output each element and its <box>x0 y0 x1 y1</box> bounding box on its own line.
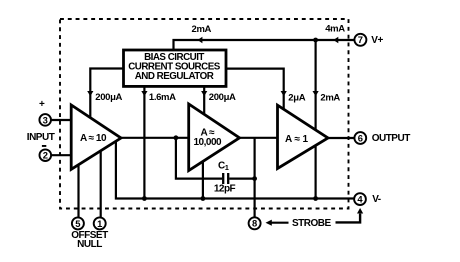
wire: strobe arrow shaft <box>272 222 289 224</box>
arrowhead 200uA down <box>87 91 93 96</box>
svg-text:4: 4 <box>357 194 363 205</box>
wire: pin 5 stub <box>77 165 79 218</box>
arrowhead strobe (pointing up at pin 4) <box>357 208 363 214</box>
svg-text:10,000: 10,000 <box>194 137 223 148</box>
op-amp A~10,000 second stage <box>189 104 240 171</box>
node: C1 right junction <box>252 176 257 181</box>
arrowhead 2mA down <box>313 91 319 96</box>
svg-text:INPUT: INPUT <box>27 132 55 143</box>
svg-text:200μA: 200μA <box>209 92 236 103</box>
node: top rail junction <box>313 38 318 43</box>
capacitor C1 plates <box>223 173 228 184</box>
arrowhead 200uA down <box>201 91 207 96</box>
svg-text:7: 7 <box>358 34 363 45</box>
svg-text:+: + <box>39 99 45 110</box>
node: amp3 stub to V- rail <box>313 196 318 201</box>
pin 8 circle <box>249 217 261 229</box>
svg-text:OUTPUT: OUTPUT <box>372 133 411 144</box>
arrowhead 4mA (pointing left) <box>333 37 338 43</box>
svg-text:C1: C1 <box>218 161 229 173</box>
svg-text:V+: V+ <box>371 35 383 46</box>
svg-text:A ≈ 1: A ≈ 1 <box>285 134 308 145</box>
wire: strobe to pin 4 <box>336 214 361 223</box>
svg-text:2mA: 2mA <box>320 93 340 104</box>
node: 1.6mA to V- rail <box>142 196 147 201</box>
pin 1 circle <box>94 217 106 229</box>
wire: pin 2 to amp1 <box>51 154 71 156</box>
svg-text:2: 2 <box>43 150 48 161</box>
arrowhead 2uA down <box>281 91 287 96</box>
svg-text:V-: V- <box>372 194 381 205</box>
arrowhead strobe (pointing left into pin 8) <box>266 220 272 226</box>
capacitor C1 left wire <box>176 138 222 179</box>
wire: amp3 V- stub <box>315 146 317 199</box>
wire: bias 200uA branch to second stage <box>203 86 205 115</box>
svg-text:1.6mA: 1.6mA <box>149 92 176 103</box>
wire: amp2 V- stub <box>202 161 204 198</box>
wire: bias left 200uA branch to input stage <box>90 69 124 118</box>
capacitor C1 right wire <box>229 178 254 180</box>
wire: 2mA branch down to output stage <box>315 40 317 130</box>
arrowhead 1.6mA down <box>141 91 147 96</box>
svg-text:2mA: 2mA <box>192 24 212 35</box>
wire: bias 1.6mA branch down to V- rail <box>143 86 145 199</box>
svg-text:4mA: 4mA <box>325 23 345 34</box>
svg-text:3: 3 <box>43 114 48 125</box>
svg-text:8: 8 <box>252 218 257 229</box>
label - <box>42 145 46 147</box>
op-amp A~1 output stage <box>278 105 329 168</box>
wire: pin 3 to amp1 <box>51 119 71 121</box>
pin 7 circle <box>354 34 366 46</box>
wire: V+ top rail from pin 7 into bias box <box>174 40 355 50</box>
svg-text:200μA: 200μA <box>95 92 122 103</box>
node: amp2 stub to V- rail <box>201 196 206 201</box>
svg-text:STROBE: STROBE <box>292 218 332 229</box>
svg-text:2μA: 2μA <box>288 93 305 104</box>
svg-text:1: 1 <box>97 218 102 229</box>
wire: amp2 output to amp3 input <box>240 137 278 139</box>
svg-text:6: 6 <box>358 132 363 143</box>
pin 2 circle <box>40 149 52 161</box>
node: C1 left junction <box>174 135 179 140</box>
wire: amp1 output to amp2 input <box>121 137 189 139</box>
wire: pin 1 stub <box>100 151 102 218</box>
svg-text:AND REGULATOR: AND REGULATOR <box>135 71 214 82</box>
pin 5 circle <box>72 217 84 229</box>
op-amp A~10 input stage <box>71 105 121 169</box>
bias box: BIAS CIRCUIT CURRENT SOURCES AND REGULATOR <box>124 50 227 86</box>
svg-text:5: 5 <box>75 218 80 229</box>
wire: bias 2uA branch to output stage <box>226 69 284 110</box>
pin 4 circle <box>354 193 366 205</box>
wire: amp3 output to pin 6 <box>328 137 354 139</box>
svg-text:12pF: 12pF <box>214 183 236 194</box>
arrowhead 2mA (pointing left) <box>198 37 203 43</box>
pin 6 circle <box>354 132 366 144</box>
wire: amp2 output down to C1 and pin 8 <box>254 138 256 218</box>
pin 3 circle <box>39 114 51 126</box>
svg-text:NULL: NULL <box>77 239 102 250</box>
IC package boundary (dashed) <box>60 19 349 209</box>
svg-text:A ≈ 10: A ≈ 10 <box>80 133 107 144</box>
wire: V- rail with amp1 stub <box>116 141 354 199</box>
